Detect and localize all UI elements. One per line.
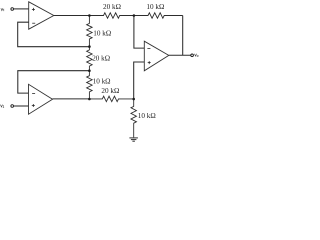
node A junction dot	[88, 14, 91, 17]
op-amp U3	[144, 41, 169, 71]
wire U1 output to node A	[54, 15, 90, 17]
resistor R5 20k ladder middle	[87, 47, 93, 71]
wire op-amp U1 feedback loop	[18, 22, 90, 47]
svg-text:20 kΩ: 20 kΩ	[103, 3, 121, 11]
label v1	[1, 8, 4, 11]
U3 minus sign	[147, 47, 150, 49]
svg-text:10 kΩ: 10 kΩ	[138, 112, 156, 120]
node junction dot mid1	[88, 45, 91, 48]
wire feedback down to output node	[182, 16, 184, 56]
U1 plus sign	[32, 8, 35, 11]
svg-text:20 kΩ: 20 kΩ	[101, 87, 119, 95]
label vo	[195, 54, 199, 57]
wire v2 input	[14, 105, 29, 107]
svg-text:10 kΩ: 10 kΩ	[146, 3, 164, 11]
resistor R2 10k top-right	[134, 13, 183, 19]
node C junction dot	[132, 98, 135, 101]
resistor R4 10k ladder top	[87, 16, 93, 47]
wire op-amp U2 feedback loop	[18, 71, 90, 93]
op-amp U1	[29, 2, 54, 29]
U1 minus sign	[32, 22, 35, 24]
wire node C up to U3 noninverting input	[134, 62, 145, 99]
svg-text:10 kΩ: 10 kΩ	[93, 77, 111, 85]
label v2	[1, 105, 5, 108]
node B junction dot	[133, 14, 136, 17]
terminal vo	[191, 54, 194, 57]
op-amp U2	[29, 84, 53, 114]
terminal v2	[11, 105, 14, 108]
ground	[129, 138, 138, 141]
wire U2 output to node D	[53, 98, 90, 100]
resistor R6 10k ladder bottom	[87, 71, 93, 99]
svg-text:10 kΩ: 10 kΩ	[93, 30, 111, 38]
svg-text:20 kΩ: 20 kΩ	[92, 55, 110, 63]
node D junction dot	[88, 98, 91, 101]
terminal v1	[11, 8, 14, 11]
wire v1 input	[14, 8, 29, 10]
U2 plus sign	[32, 104, 35, 107]
node junction dot mid2	[88, 69, 91, 72]
U3 plus sign	[148, 61, 151, 64]
wire node B down to U3 inverting input	[134, 16, 144, 49]
resistor R1 20k top-left	[89, 13, 133, 19]
wire U3 output	[169, 54, 191, 56]
resistor R3 20k bottom	[89, 96, 133, 102]
U2 minus sign	[32, 93, 35, 95]
resistor R7 10k to ground	[131, 99, 137, 137]
